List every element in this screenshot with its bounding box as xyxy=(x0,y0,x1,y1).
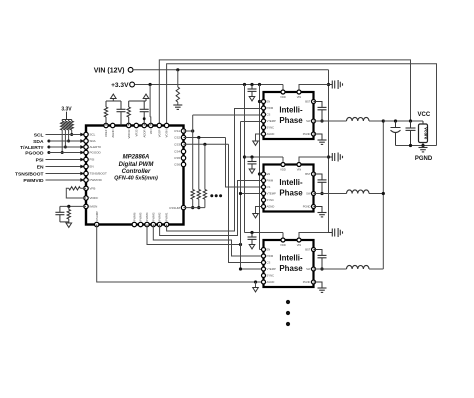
svg-text:PWM5: PWM5 xyxy=(139,212,143,221)
svg-text:PWM2: PWM2 xyxy=(158,212,162,221)
svg-text:SDA: SDA xyxy=(33,139,44,145)
svg-text:Intelli-: Intelli- xyxy=(279,254,303,263)
U2 left pins xyxy=(262,100,276,137)
svg-text:PGOOD: PGOOD xyxy=(90,151,102,155)
svg-text:BST: BST xyxy=(305,248,311,252)
svg-text:CS3: CS3 xyxy=(174,143,180,147)
svg-text:VSUMP: VSUMP xyxy=(95,211,99,221)
wire VTEMP bus vertical xyxy=(239,122,262,271)
ground AGND phase 2 xyxy=(253,207,262,218)
svg-text:VTEMP: VTEMP xyxy=(267,192,276,196)
svg-text:PWM: PWM xyxy=(267,179,274,183)
capacitor C-vin2 xyxy=(329,153,343,162)
svg-text:Phase: Phase xyxy=(279,189,303,198)
wire SW phase 3 xyxy=(314,268,347,270)
wire GND remote sense line (top inner) xyxy=(167,64,437,146)
svg-text:EN: EN xyxy=(267,100,271,104)
inductor L3 xyxy=(347,265,370,269)
svg-text:VR33: VR33 xyxy=(134,129,138,136)
svg-text:Intelli-: Intelli- xyxy=(279,178,303,187)
net label +3.3V xyxy=(111,82,134,89)
svg-text:CS6: CS6 xyxy=(174,163,180,167)
wire VDD 3.3V rail vertical xyxy=(243,85,246,233)
svg-text:VDD33: VDD33 xyxy=(127,129,131,138)
op-amp U4 Intelli-Phase power stage xyxy=(264,240,314,287)
capacitor C-vdd2 xyxy=(248,157,257,173)
net label 3.3V (pull-ups) xyxy=(61,107,72,120)
svg-text:PWM: PWM xyxy=(267,254,274,258)
wire CS3 net xyxy=(184,143,262,263)
ground AGND phase 1 xyxy=(253,134,262,145)
svg-text:VDIFF: VDIFF xyxy=(90,196,99,200)
U2 top pins xyxy=(280,90,301,99)
svg-text:AGND: AGND xyxy=(267,280,275,284)
resistor pull-up R-alert xyxy=(64,120,67,149)
svg-text:PWM4: PWM4 xyxy=(145,212,149,221)
wire VTEMP bus feed xyxy=(147,225,242,247)
resistor pull-up R-scl xyxy=(70,120,73,137)
svg-text:VDD: VDD xyxy=(280,95,286,99)
resistor R-cs1 xyxy=(191,190,194,200)
svg-text:SYNC: SYNC xyxy=(267,198,275,202)
resistor R-cs3 xyxy=(203,190,206,200)
svg-text:SW: SW xyxy=(306,267,311,271)
inductor L2 xyxy=(347,190,370,194)
wire CS2 net xyxy=(184,136,262,209)
svg-text:VOSP: VOSP xyxy=(157,129,161,137)
wire VSUMP to AGND bus xyxy=(97,225,262,284)
U1 top pins xyxy=(104,123,169,138)
svg-text:Phase: Phase xyxy=(279,264,303,273)
svg-text:SDA: SDA xyxy=(90,139,96,143)
svg-text:CS1: CS1 xyxy=(174,129,180,133)
svg-text:TSNS/BOOT: TSNS/BOOT xyxy=(90,172,108,176)
3.3V arrow A (top cluster) xyxy=(111,94,117,101)
U1 left pins xyxy=(84,132,107,208)
resistor R-fb (VFB to VDIFF) xyxy=(66,187,86,198)
svg-text:PWM6: PWM6 xyxy=(132,212,136,221)
svg-text:Digital PWM: Digital PWM xyxy=(119,162,155,168)
signal TSNS/BOOT xyxy=(15,171,85,177)
svg-text:Intelli-: Intelli- xyxy=(279,106,303,115)
wire PWM3 to phase 3 xyxy=(153,225,261,257)
svg-text:Controller: Controller xyxy=(122,169,151,175)
3.3V arrow B (top cluster) xyxy=(143,94,149,101)
svg-text:AGND: AGND xyxy=(111,130,115,138)
wire L2 to output rail xyxy=(369,193,383,195)
wire +3.3V rail horizontal xyxy=(135,83,284,86)
wire output ground bus xyxy=(396,144,437,147)
wire VDD branch phase 2 xyxy=(245,155,284,164)
svg-text:Vcore: Vcore xyxy=(424,127,429,140)
capacitor C-top1 xyxy=(106,101,126,126)
svg-text:SW: SW xyxy=(306,119,311,123)
svg-text:EN: EN xyxy=(37,164,44,170)
svg-text:MP2886A: MP2886A xyxy=(123,155,150,161)
wire IMON xyxy=(60,205,86,208)
wire L3 to output rail xyxy=(369,268,383,270)
capacitor C-vdd1 xyxy=(248,85,257,101)
svg-text:PGND: PGND xyxy=(303,205,311,209)
capacitor C-imon xyxy=(55,206,64,222)
net label VCC xyxy=(418,112,431,118)
wire VIN 12V rail horizontal xyxy=(133,69,329,71)
ground below R-vin xyxy=(173,105,182,109)
wire SW phase 1 xyxy=(314,120,347,122)
capacitor C-vin3 xyxy=(329,228,343,237)
svg-text:IMON: IMON xyxy=(90,205,98,209)
svg-text:PWM3: PWM3 xyxy=(151,212,155,221)
svg-text:CS: CS xyxy=(267,185,271,189)
svg-text:EN: EN xyxy=(90,165,94,169)
svg-text:VIN (12V): VIN (12V) xyxy=(94,67,125,74)
svg-text:BST: BST xyxy=(305,100,311,104)
svg-text:VOSN: VOSN xyxy=(165,130,169,138)
resistor pull-up R-pgood xyxy=(61,120,64,155)
wire PWM2 to phase 2 xyxy=(160,181,262,236)
resistor R-imon xyxy=(60,206,71,222)
op-amp U3 Intelli-Phase power stage xyxy=(264,165,314,212)
wire VCC output xyxy=(383,119,423,122)
svg-text:VTEMP: VTEMP xyxy=(267,267,276,271)
svg-text:PSI: PSI xyxy=(90,158,95,162)
U4 right pins xyxy=(303,248,316,285)
resistor pull-up R-sda xyxy=(67,120,70,143)
inductor L1 xyxy=(347,117,370,121)
svg-text:SYNC: SYNC xyxy=(267,126,275,130)
resistor R-vref (above pin VREF) xyxy=(104,101,113,126)
svg-text:CSSUM: CSSUM xyxy=(169,206,180,210)
signal SDA xyxy=(33,139,84,145)
svg-text:PWM: PWM xyxy=(267,106,274,110)
wire CS1 net xyxy=(184,115,262,209)
svg-text:VIN: VIN xyxy=(297,95,302,99)
svg-text:PWMVID: PWMVID xyxy=(23,178,44,184)
svg-text:CS: CS xyxy=(267,113,271,117)
svg-text:VIN: VIN xyxy=(297,243,302,247)
U1 bottom pins xyxy=(95,211,169,227)
ground PGND phase 1 xyxy=(314,134,327,144)
wire +3.3V to pin VIN33 xyxy=(149,85,152,126)
ground PGND phase 3 xyxy=(314,282,327,292)
U1 title text xyxy=(114,155,158,182)
wire L1 to output rail xyxy=(369,120,383,122)
op-amp U2 Intelli-Phase power stage xyxy=(264,92,314,139)
op-amp U1 MP2886A controller box xyxy=(86,126,184,225)
U4 top pins xyxy=(280,238,301,247)
wire VIN branch phase 1 xyxy=(299,85,329,93)
U4 left pins xyxy=(262,248,276,285)
svg-text:SYNC: SYNC xyxy=(267,274,275,278)
U3 right pins xyxy=(303,172,316,209)
ellipsis more phases xyxy=(286,300,290,326)
signal PSI xyxy=(36,157,85,163)
svg-text:PGND: PGND xyxy=(303,132,311,136)
U3 left pins xyxy=(262,172,276,209)
svg-text:PGND: PGND xyxy=(415,156,433,162)
svg-text:PGOOD: PGOOD xyxy=(25,150,44,156)
ground AGND phase 3 xyxy=(253,282,259,292)
svg-text:SCL: SCL xyxy=(34,132,44,138)
svg-text:CS: CS xyxy=(267,261,271,265)
wire CSSUM xyxy=(184,207,205,209)
wire VIN branch phase 2 xyxy=(299,157,329,165)
svg-text:SW: SW xyxy=(306,192,311,196)
wire PWM1 to phase 1 xyxy=(167,109,262,232)
svg-text:VIN: VIN xyxy=(297,168,302,172)
resistor R-top2 (above pin VDD33) xyxy=(127,101,146,126)
wire VIN branch phase 3 xyxy=(299,233,329,241)
svg-text:PSI: PSI xyxy=(36,157,45,163)
capacitor C-out1 (electrolytic) xyxy=(391,121,401,146)
capacitor C-out2 (ceramic) xyxy=(406,121,416,146)
svg-text:VDD: VDD xyxy=(280,168,286,172)
U3 top pins xyxy=(280,163,301,172)
svg-text:BST: BST xyxy=(305,172,311,176)
svg-text:AGND: AGND xyxy=(267,205,275,209)
svg-text:VCC: VCC xyxy=(418,112,431,118)
wire VDD branch phase 3 xyxy=(245,231,284,240)
net label PGND xyxy=(415,156,433,162)
svg-text:QFN-40 5x5(mm): QFN-40 5x5(mm) xyxy=(114,176,158,182)
svg-text:CS2: CS2 xyxy=(174,136,180,140)
ground IMON (arrow) xyxy=(66,222,72,228)
capacitor C-bst2 xyxy=(314,174,327,195)
svg-text:VTEMP: VTEMP xyxy=(267,119,276,123)
svg-text:ALERT#: ALERT# xyxy=(90,145,102,149)
signal EN xyxy=(37,164,85,170)
ground PGND phase 2 xyxy=(314,207,327,217)
wire output rail vertical xyxy=(382,119,385,269)
svg-text:PWMVID: PWMVID xyxy=(90,178,103,182)
svg-text:SCL: SCL xyxy=(90,133,96,137)
capacitor C-top2 xyxy=(140,101,149,126)
svg-text:AGND: AGND xyxy=(267,132,275,136)
load Vcore xyxy=(419,121,429,146)
ellipsis more CS phases xyxy=(210,194,222,197)
capacitor C-vdd3 xyxy=(248,233,257,249)
svg-text:VIN: VIN xyxy=(149,130,153,135)
svg-text:TSNS/BOOT: TSNS/BOOT xyxy=(15,171,44,177)
svg-text:VREF: VREF xyxy=(104,129,108,137)
wire SW phase 2 xyxy=(314,193,347,195)
wire VCC remote sense line (top outer) xyxy=(159,60,410,126)
svg-text:VDD: VDD xyxy=(280,243,286,247)
signal PGOOD xyxy=(25,150,84,156)
signal SCL xyxy=(34,132,85,138)
capacitor C-bst1 xyxy=(314,102,327,123)
svg-text:CS5: CS5 xyxy=(174,156,180,160)
net label VIN (12V) xyxy=(94,67,133,74)
svg-text:PWM1: PWM1 xyxy=(165,212,169,221)
capacitor C-bst3 xyxy=(314,250,327,271)
svg-text:EN: EN xyxy=(267,172,271,176)
svg-text:T/ALERT#: T/ALERT# xyxy=(20,145,44,151)
signal PWMVID xyxy=(23,178,84,184)
wire VDD branch phase 1 xyxy=(282,85,284,93)
wire EN rail (3.3V to phase EN pins) xyxy=(258,85,262,250)
svg-text:ADDR: ADDR xyxy=(142,130,146,138)
svg-text:VFB: VFB xyxy=(90,187,96,191)
capacitor C-vin1 xyxy=(329,80,343,89)
U2 right pins xyxy=(303,100,316,137)
signal T/ALERT# xyxy=(20,145,84,151)
ground PGND output xyxy=(419,146,428,152)
svg-text:PGND: PGND xyxy=(303,280,311,284)
svg-text:EN: EN xyxy=(267,248,271,252)
resistor VIN divider R-vin xyxy=(176,68,179,105)
svg-text:+3.3V: +3.3V xyxy=(111,82,129,89)
svg-text:CS4: CS4 xyxy=(174,150,180,154)
svg-text:Phase: Phase xyxy=(279,116,303,125)
wire VIN rail vertical xyxy=(327,70,330,233)
resistor R-cs2 xyxy=(197,190,200,200)
U1 right pins xyxy=(169,129,186,210)
